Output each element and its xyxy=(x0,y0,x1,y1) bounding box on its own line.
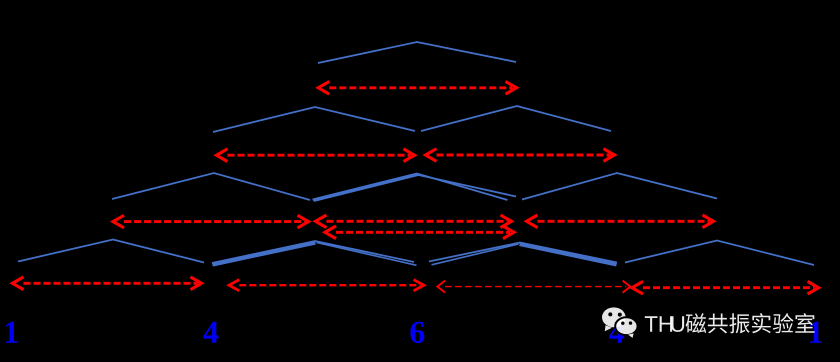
watermark wechat logo xyxy=(602,307,638,338)
watermark text char 振 xyxy=(729,313,749,333)
peak level0 apex xyxy=(318,42,516,63)
peak level3 t3 right leg thick xyxy=(520,244,617,264)
intensity label 4 (pos 2) xyxy=(203,322,218,343)
peak level3 t2 copy1 xyxy=(212,241,414,263)
peak level1 right xyxy=(421,106,611,131)
watermark text char 实 xyxy=(752,313,771,333)
peak level1 left xyxy=(213,107,415,132)
intensity label 1 (pos 5) xyxy=(810,322,822,343)
peak level3 t3 left leg copy2 xyxy=(432,244,519,265)
J arrow row3 c xyxy=(437,281,630,293)
watermark text char 室 xyxy=(795,313,814,333)
watermark text letter T xyxy=(645,316,658,331)
peak level3 t4 xyxy=(625,241,814,266)
J arrow row2 left xyxy=(113,215,309,228)
watermark text char 验 xyxy=(773,313,794,333)
J arrow row0 xyxy=(318,82,516,95)
J arrow row2 middle duplicate xyxy=(325,226,514,239)
watermark text letter H xyxy=(660,316,673,331)
J arrow row3 b xyxy=(229,280,424,291)
peak level2 middle left leg thick xyxy=(313,174,417,200)
intensity label 6 (pos 3) xyxy=(410,322,424,344)
peak level3 t2 left leg thick xyxy=(213,243,316,265)
peak level2 right xyxy=(522,173,717,200)
peak level2 middle copy2 xyxy=(314,175,516,201)
intensity label 4 (pos 4) xyxy=(609,322,624,343)
peak level3 t1 xyxy=(18,240,204,263)
J arrow row2 right xyxy=(527,215,714,228)
watermark text char 共 xyxy=(708,313,728,333)
intensity label 1 (pos 1) xyxy=(6,322,18,343)
J arrow row2 middle xyxy=(316,215,512,228)
peak level2 left xyxy=(112,173,310,200)
peak level3 t3 copy1 xyxy=(429,243,617,263)
J arrow row3 d xyxy=(632,281,819,294)
peak level3 t2 right leg copy2 xyxy=(317,243,417,266)
J arrow row1 right xyxy=(426,149,615,162)
peak level2 middle copy1 xyxy=(313,174,508,201)
watermark text letter U xyxy=(671,316,684,332)
J arrow row3 a xyxy=(13,277,202,290)
J arrow row1 left xyxy=(217,149,415,162)
watermark text char 磁 xyxy=(686,313,707,333)
